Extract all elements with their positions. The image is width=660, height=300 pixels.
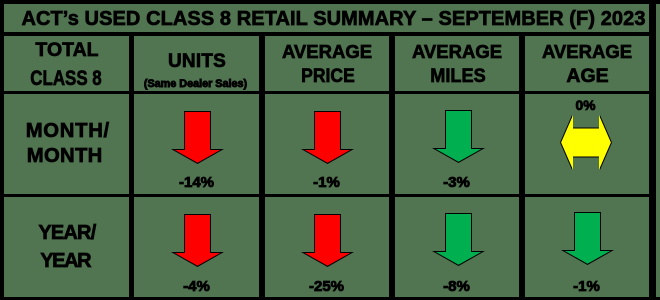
header AVERAGE (age col) — [542, 43, 632, 62]
column divider 3 — [389, 32, 395, 300]
column divider 4 — [519, 32, 525, 300]
header MILES — [430, 67, 485, 87]
label -1% yy — [573, 279, 600, 294]
header AGE — [566, 67, 608, 87]
green down arrow Y/Y age — [561, 212, 614, 265]
row label MONTH/ — [26, 121, 110, 141]
divider between data rows — [0, 194, 655, 197]
header UNITS subtitle — [144, 79, 247, 90]
green down arrow M/M miles — [432, 110, 485, 163]
red down arrow Y/Y units — [171, 214, 224, 267]
label -25% — [309, 279, 344, 294]
row label YEAR/ — [38, 223, 95, 243]
header PRICE — [301, 67, 355, 87]
row label MONTH — [27, 146, 103, 166]
red down arrow M/M units — [171, 111, 224, 164]
title text — [21, 9, 645, 29]
header AVERAGE (miles col) — [412, 43, 502, 62]
label -3% — [443, 175, 470, 190]
header CLASS 8 — [30, 68, 101, 89]
yellow left-right arrow M/M age — [560, 115, 612, 170]
table outer border left — [0, 0, 4, 300]
label 0% above yellow arrow — [576, 99, 596, 113]
label -4% — [183, 279, 210, 294]
column divider 1 — [129, 32, 135, 300]
header TOTAL — [35, 41, 98, 61]
row label YEAR — [40, 251, 90, 271]
table outer border right — [649, 0, 656, 300]
label -14% — [179, 175, 214, 190]
table outer border bottom — [0, 297, 660, 300]
header UNITS — [168, 52, 226, 71]
label -1% — [313, 175, 340, 190]
divider under header row — [0, 91, 655, 95]
table outer border top — [0, 0, 660, 4]
label -8% — [443, 279, 470, 294]
green down arrow Y/Y miles — [432, 213, 485, 266]
red down arrow M/M price — [301, 111, 354, 164]
red down arrow Y/Y price — [301, 214, 354, 267]
column divider 2 — [259, 32, 265, 300]
divider under title row — [0, 32, 655, 37]
header AVERAGE (price col) — [282, 43, 372, 62]
